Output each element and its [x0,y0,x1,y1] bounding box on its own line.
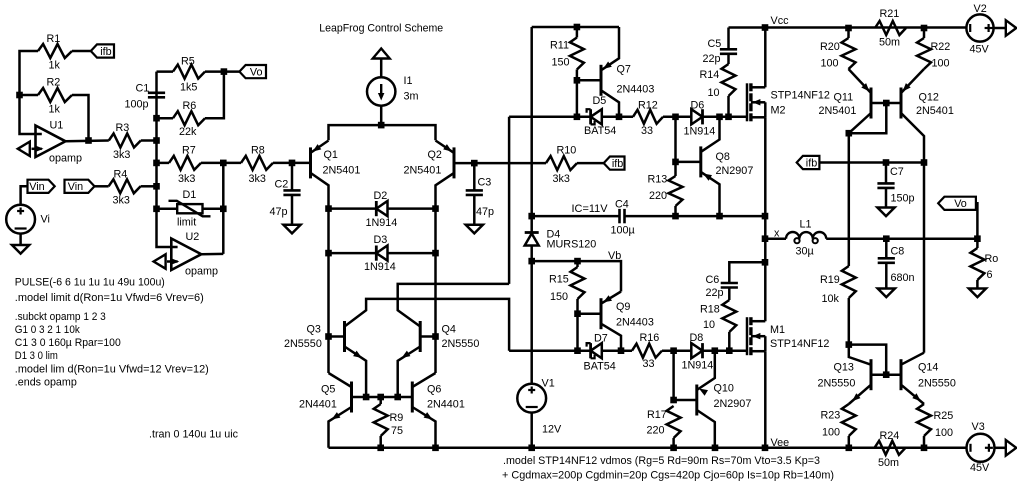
svg-text:Q10: Q10 [714,383,734,395]
value 100 [935,427,953,439]
flag ifb [91,44,114,58]
label D8 [690,332,704,344]
label D7 [594,333,608,345]
value 45V [970,462,990,474]
svg-text:.model STP14NF12 vdmos (Rg=5 R: .model STP14NF12 vdmos (Rg=5 Rd=90m Rs=7… [503,455,820,467]
junction [670,445,677,452]
resistor R23 [842,404,856,436]
wire [420,335,435,338]
junction [670,347,677,354]
svg-text:R4: R4 [114,169,128,181]
junction [325,205,332,212]
svg-text:STP14NF12: STP14NF12 [770,338,829,350]
label R23 [821,410,841,422]
label R7 [182,145,196,157]
value 2N5401 [916,105,954,117]
svg-text:opamp: opamp [49,153,82,165]
text C1 line [15,337,121,349]
wire [329,335,345,338]
wire [994,27,1006,30]
value 2N4401 [427,399,465,411]
resistor R20 [842,38,856,69]
junction [726,347,733,354]
wire [32,148,42,151]
wire [901,385,924,404]
label R11 [550,40,569,52]
wire [848,436,851,448]
wire [436,141,455,153]
svg-text:R11: R11 [550,40,569,52]
svg-text:33: 33 [641,125,653,137]
wire [434,209,437,373]
label R24 [880,430,900,442]
wire [576,70,579,117]
wire [201,162,241,165]
label D2 [374,190,388,202]
label C7 [890,166,904,178]
value 2N5401 [323,165,361,177]
arrow Q7 [603,62,612,70]
junction [574,114,581,121]
label D1 [183,189,197,201]
junction [883,371,890,378]
transistor Q8 [699,146,702,177]
op-amp U1 [36,126,66,158]
label R1 [47,33,61,45]
wire [352,396,413,399]
value 22k [179,126,197,138]
wire [72,95,89,141]
value 2N5550 [818,378,856,390]
wire [291,195,294,225]
junction [618,347,625,354]
wire [727,54,730,64]
junction [432,205,439,212]
resistor R14 [722,64,736,96]
wire [329,125,436,140]
resistor R9 [374,404,388,436]
junction [16,92,23,99]
label opamp [49,153,82,165]
label R18 [700,304,720,316]
junction [574,24,581,31]
value 1N914 [366,217,398,229]
junction [153,206,160,213]
wire [412,373,435,387]
junction [432,333,439,340]
value 2N4403 [616,317,654,329]
svg-text:D5: D5 [593,95,607,107]
junction [845,25,852,32]
svg-text:D2: D2 [374,190,388,202]
wire [976,239,979,248]
wire [530,413,533,448]
wire [697,410,715,448]
label C3 [478,177,492,189]
value 100p [125,99,149,111]
bottom rail Vee [329,447,967,450]
junction [363,394,370,401]
value 2N5550 [284,338,322,350]
label R10 [557,145,577,157]
wire [508,117,511,284]
junction [574,258,581,265]
arrow Q13 emitter [852,393,861,401]
svg-text:3k3: 3k3 [178,173,195,185]
wire [601,292,621,304]
text .subckt [15,311,106,323]
transistor Q2 [453,147,456,178]
junction [672,159,679,166]
ground [877,208,894,217]
svg-text:Vo: Vo [250,67,263,79]
value 47p [476,206,494,218]
text + Cgdmax [502,470,834,482]
text PULSE [15,277,165,289]
value 12V [542,424,562,436]
svg-text:G1 0 3 2 1 10k: G1 0 3 2 1 10k [15,324,81,336]
value 10 [708,87,720,99]
wire [157,117,174,120]
label Q12 [919,92,939,104]
junction [670,397,677,404]
transistor Q13 [870,359,873,390]
wire [764,117,767,321]
svg-text:.ends opamp: .ends opamp [15,377,77,389]
wire [765,237,786,240]
junction [528,213,535,220]
value 3k3 [553,173,570,185]
transistor Q3 [343,321,346,352]
junction [221,68,228,75]
svg-text:V2: V2 [974,3,987,15]
value 2N2907 [714,398,752,410]
junction [883,235,890,242]
wire [380,59,383,78]
junction [846,445,853,452]
wire [674,399,697,402]
wire [509,116,590,119]
svg-text:R8: R8 [251,145,265,157]
label Vee [771,437,790,449]
label R13 [648,174,668,186]
diode D6 [691,109,702,124]
svg-text:U2: U2 [186,231,200,243]
value 1k5 [180,82,197,94]
wire [380,106,383,125]
svg-text:1N914: 1N914 [682,360,714,372]
resistor R8 [241,156,273,170]
label Q2 [428,149,442,161]
wire [157,70,174,73]
svg-text:LeapFrog Control Scheme: LeapFrog Control Scheme [319,23,443,35]
svg-text:Vin: Vin [68,181,83,193]
junction [574,77,581,84]
wire [601,90,619,117]
arrow Q4 [402,351,411,358]
value STP14NF12 [770,338,829,350]
wire [436,173,455,209]
node x [774,228,780,240]
svg-text:C1: C1 [136,83,150,95]
svg-text:C1 3 0 160µ Rpar=100: C1 3 0 160µ Rpar=100 [15,337,121,349]
junction [762,259,769,266]
wire [728,288,731,301]
diode D5 [587,109,602,124]
junction [574,310,581,317]
svg-text:Vin: Vin [29,181,44,193]
svg-text:12V: 12V [542,424,562,436]
label Q9 [616,301,630,313]
wire [662,349,691,352]
junction [220,160,227,167]
svg-text:x: x [774,228,780,240]
arrow Q1 [313,144,322,152]
svg-text:V1: V1 [542,378,555,390]
wire [728,332,731,351]
junction [325,250,332,257]
label I1 [404,75,413,87]
value 2N4403 [617,84,655,96]
mosfet M1 [747,317,765,355]
value 2N4401 [299,399,337,411]
junction [471,160,478,167]
wire [398,347,421,398]
wire [819,161,924,164]
junction [846,341,853,348]
junction [762,235,769,242]
label Q14 [918,362,938,374]
svg-text:Q11: Q11 [834,92,854,104]
diode D7 [587,343,602,358]
label U2 [186,231,200,243]
junction [153,137,160,144]
wire [849,69,872,93]
label C6 [706,274,720,286]
svg-text:+ Cgdmax=200p Cgdmin=20p Cgs=4: + Cgdmax=200p Cgdmin=20p Cgs=420p Cjo=60… [502,470,834,482]
wire [727,28,730,50]
junction [153,183,160,190]
svg-text:6: 6 [987,269,993,281]
svg-text:2N5550: 2N5550 [818,378,856,390]
value 10 [703,319,715,331]
junction [153,115,160,122]
label R5 [181,56,195,68]
text .ends [15,377,77,389]
value 150 [550,291,568,303]
value 75 [391,425,403,437]
label Q13 [834,362,854,374]
Vcc rail [729,26,967,29]
svg-text:L1: L1 [800,219,812,231]
value STP14NF12 [771,90,830,102]
resistor R15 [571,267,585,299]
svg-text:220: 220 [649,190,667,202]
svg-text:Q6: Q6 [427,384,441,396]
value 150 [552,57,570,69]
svg-text:33: 33 [643,358,655,370]
wire [473,163,476,190]
wire [345,299,510,351]
value 220 [649,190,667,202]
inductor L1 [786,232,826,243]
svg-text:R18: R18 [700,304,720,316]
arrow Q6 [424,412,433,419]
svg-text:2N5401: 2N5401 [323,165,361,177]
wire [676,161,701,164]
value 6 [987,269,993,281]
arrow Q14 emitter [912,393,921,401]
svg-text:R14: R14 [700,69,720,81]
svg-text:C3: C3 [478,177,492,189]
label M2 [771,105,786,117]
svg-text:1k: 1k [49,104,61,116]
label M1 [770,324,785,336]
svg-text:1N914: 1N914 [366,217,398,229]
svg-text:D1 3 0 lim: D1 3 0 lim [15,350,58,362]
svg-text:R6: R6 [183,100,197,112]
resistor R25 [917,404,931,436]
wire [674,206,677,216]
svg-text:R24: R24 [880,430,900,442]
value 1N914 [682,360,714,372]
svg-text:3m: 3m [404,91,419,103]
wire [602,116,633,119]
svg-text:10: 10 [703,319,715,331]
wire [625,215,766,218]
wire [412,407,435,448]
label U1 [50,120,64,132]
arrow Q2 [443,144,452,152]
wire [95,185,109,188]
label R21 [880,8,900,20]
label R16 [640,332,660,344]
svg-text:C7: C7 [890,166,904,178]
label Vi [41,214,50,226]
current source I1 [367,77,395,105]
label R22 [931,41,951,53]
label R20 [820,41,840,53]
svg-text:1k5: 1k5 [180,82,197,94]
wire [848,298,851,345]
wire [674,117,677,162]
label R14 [700,69,720,81]
svg-text:Q8: Q8 [716,151,730,163]
svg-text:C4: C4 [615,199,629,211]
diode D2 [376,201,387,216]
transistor Q9 [600,298,603,329]
wire [329,407,352,448]
text .model limit [15,292,204,304]
resistor R1 [38,44,72,58]
svg-text:ifb: ifb [806,157,817,169]
svg-text:R21: R21 [880,8,900,20]
wire [311,173,329,209]
svg-text:ifb: ifb [100,46,111,58]
resistor R2 [38,88,72,102]
svg-text:opamp: opamp [185,266,218,278]
wire [849,345,886,375]
op-amp U2 [171,239,201,271]
label R6 [183,100,197,112]
resistor R17 [667,406,681,438]
flag Vin [28,180,55,194]
svg-text:D3: D3 [374,234,388,246]
label Q6 [427,384,441,396]
Vb net wire [532,261,621,291]
transistor Q1 [309,147,312,178]
wire [329,207,377,210]
svg-text:50m: 50m [878,457,899,469]
value 33 [643,358,655,370]
capacitor C7 [877,183,894,188]
wire [157,72,178,247]
svg-text:R20: R20 [820,41,840,53]
value 1N914 [684,126,716,138]
label Q4 [442,324,456,336]
svg-text:D6: D6 [691,100,705,112]
label Vcc [771,15,790,27]
wire [885,239,888,259]
value 100 [822,427,840,439]
resistor R4 [109,179,141,193]
text .model lim [15,364,209,376]
arrow Q9 [603,295,612,302]
text G1 [15,324,81,336]
svg-text:47p: 47p [476,206,494,218]
resistor R18 [722,300,736,332]
value 3k3 [249,173,266,185]
transistor Q11 [870,88,873,119]
svg-text:R10: R10 [557,145,577,157]
wire [602,349,632,352]
label R8 [251,145,265,157]
label R17 [647,409,667,421]
label C4 [615,199,629,211]
label D4 [547,229,561,241]
ground [283,225,300,234]
svg-text:Ro: Ro [985,253,999,265]
svg-text:3k3: 3k3 [113,149,130,161]
wire [203,208,224,211]
junction [883,159,890,166]
svg-text:Vcc: Vcc [771,15,790,27]
junction [220,206,227,213]
wire [19,234,22,245]
junction [762,445,769,452]
label V3 [972,421,985,433]
svg-text:100: 100 [821,58,839,70]
svg-text:BAT54: BAT54 [584,361,616,373]
svg-text:Q5: Q5 [321,384,335,396]
junction [712,445,719,452]
transistor Q10 [695,385,698,416]
svg-text:47p: 47p [270,206,288,218]
value 2N5550 [918,378,956,390]
label D6 [691,100,705,112]
port arrow U1 [18,142,30,156]
svg-text:50m: 50m [879,37,900,49]
label Q8 [716,151,730,163]
svg-text:R9: R9 [390,412,404,424]
svg-text:R1: R1 [47,33,61,45]
wire [577,79,601,82]
wire [157,208,178,211]
label C2 [275,179,289,191]
arrow Q5 [332,412,341,419]
port arrow V3 [1006,440,1017,456]
value 100µ [611,225,635,237]
